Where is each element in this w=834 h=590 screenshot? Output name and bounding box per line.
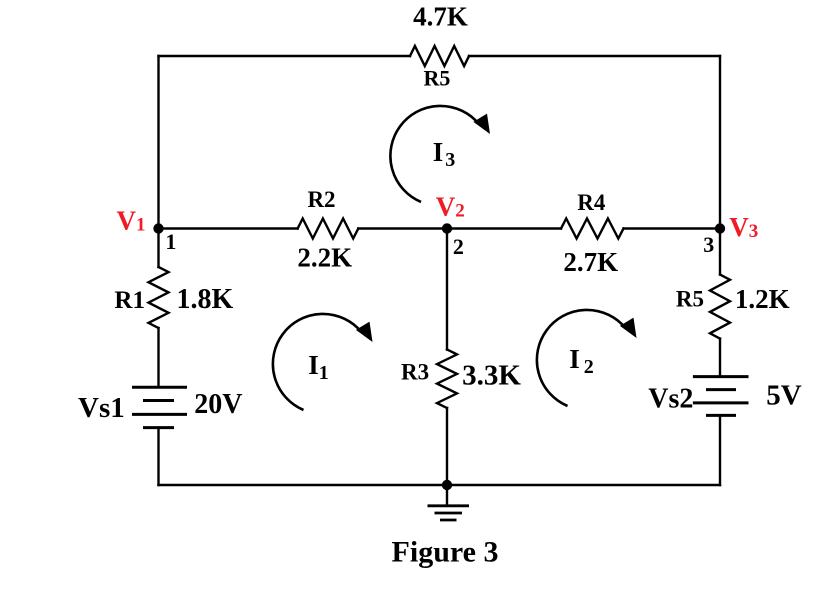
svg-text:2.7K: 2.7K bbox=[563, 247, 618, 277]
mesh current arrow I2 arc bbox=[537, 310, 625, 406]
svg-text:3: 3 bbox=[703, 232, 714, 257]
svg-text:R5: R5 bbox=[676, 287, 704, 312]
svg-text:2.2K: 2.2K bbox=[297, 243, 352, 273]
svg-text:Vs2: Vs2 bbox=[648, 383, 693, 414]
svg-text:R1: R1 bbox=[114, 287, 145, 314]
mesh current arrow I1 arc bbox=[273, 314, 361, 410]
svg-text:Figure 3: Figure 3 bbox=[392, 536, 499, 569]
svg-text:R5: R5 bbox=[424, 66, 451, 91]
mesh current arrow I3 arc bbox=[390, 106, 478, 202]
svg-text:V1: V1 bbox=[117, 206, 146, 236]
ground symbol bbox=[428, 506, 470, 520]
svg-text:2: 2 bbox=[453, 234, 464, 259]
svg-text:R4: R4 bbox=[577, 190, 606, 215]
wire bottom horizontal bbox=[159, 484, 721, 486]
wire R2 to V2 bbox=[358, 227, 561, 229]
node V2 junction dot bbox=[442, 223, 452, 233]
bottom ground junction dot bbox=[442, 480, 452, 490]
svg-text:Vs1: Vs1 bbox=[78, 392, 125, 424]
wire Vs2 to bottom bbox=[719, 415, 721, 485]
wire left vertical upper (V1 to top) bbox=[157, 56, 159, 267]
svg-text:1: 1 bbox=[165, 229, 176, 254]
svg-text:R3: R3 bbox=[401, 359, 429, 384]
wire top-right horizontal segment bbox=[469, 55, 720, 57]
wire middle vertical V2 to R3 bbox=[446, 229, 448, 350]
svg-text:4.7K: 4.7K bbox=[413, 1, 468, 31]
resistor R2 zigzag bbox=[298, 219, 359, 239]
svg-text:1.8K: 1.8K bbox=[177, 284, 234, 315]
wire middle horizontal V1 to R2 bbox=[159, 227, 298, 229]
battery Vs1 plates bbox=[132, 387, 187, 427]
wire R5 right to Vs2 bbox=[719, 339, 721, 377]
wire R3 to bottom node bbox=[446, 408, 448, 485]
svg-text:20V: 20V bbox=[194, 389, 242, 420]
svg-text:R2: R2 bbox=[307, 187, 335, 212]
svg-text:V2: V2 bbox=[436, 192, 465, 222]
wire top-left horizontal segment bbox=[159, 55, 411, 57]
node V1 junction dot bbox=[153, 223, 163, 233]
svg-text:1.2K: 1.2K bbox=[735, 284, 790, 314]
svg-text:V3: V3 bbox=[729, 212, 758, 242]
svg-text:3.3K: 3.3K bbox=[462, 360, 521, 392]
node V3 junction dot bbox=[715, 223, 725, 233]
mesh current arrow I2 head bbox=[620, 318, 637, 338]
svg-text:5V: 5V bbox=[766, 379, 802, 411]
wire R1 to Vs1 bbox=[157, 328, 159, 387]
resistor R3 zigzag bbox=[437, 350, 457, 409]
resistor R4 zigzag bbox=[561, 219, 624, 239]
wire R4 to V3 bbox=[624, 227, 721, 229]
mesh current arrow I1 head bbox=[356, 322, 373, 342]
svg-text:I2: I2 bbox=[569, 344, 594, 378]
svg-text:I3: I3 bbox=[433, 137, 456, 171]
resistor R1 zigzag bbox=[149, 267, 169, 328]
resistor R5 (top) zigzag bbox=[410, 46, 469, 66]
wire right vertical upper (top to V3) bbox=[719, 56, 721, 275]
resistor R5 (right) zigzag bbox=[710, 275, 730, 339]
mesh current arrow I3 head bbox=[473, 114, 490, 134]
wire Vs1 to bottom bbox=[157, 428, 159, 485]
ground stem bbox=[446, 485, 448, 506]
battery Vs2 plates bbox=[693, 377, 749, 416]
svg-text:I1: I1 bbox=[308, 350, 329, 384]
